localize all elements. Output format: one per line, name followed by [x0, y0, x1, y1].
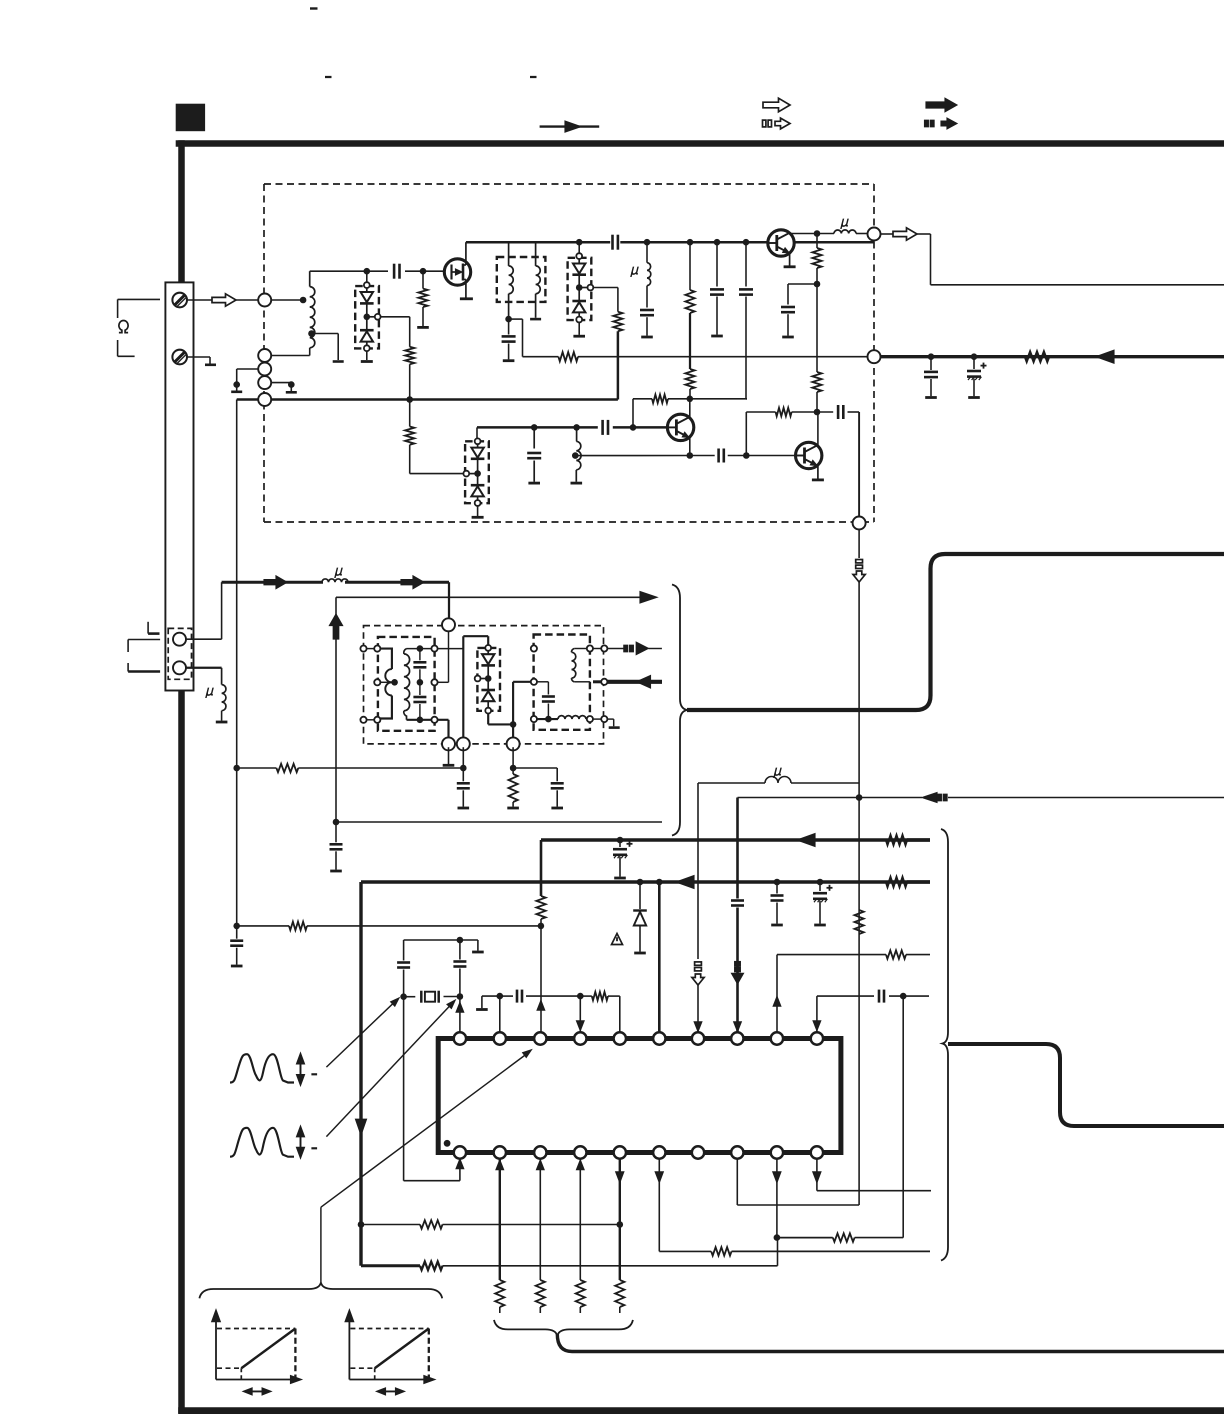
wire T3 bottom out: [438, 720, 449, 741]
node gate: [420, 268, 427, 275]
ground (C tank b): [458, 807, 470, 810]
ground (R gate): [417, 307, 429, 327]
node line2 p6: [656, 879, 663, 886]
waveform sine 1: [230, 1054, 294, 1082]
terminal IF tank top: [442, 618, 455, 631]
wire pin12 down: [499, 1158, 501, 1280]
wire Q1 drain: [465, 242, 467, 265]
ground (C bus d): [711, 335, 723, 338]
bus IF to IC: [687, 554, 1224, 710]
wire p4 riser: [579, 996, 581, 1033]
brace resistor group: [494, 1320, 633, 1336]
wire RF bus y400: [237, 331, 618, 399]
transistor Q2 oscillator: [667, 414, 693, 441]
arrow pin4 down: [577, 1021, 584, 1030]
capacitor C Q4: [781, 284, 817, 336]
wire p6 riser: [658, 882, 661, 1033]
resistor R pin14: [576, 1280, 585, 1307]
wire AGC thin inside: [618, 356, 868, 358]
T4 edge terminal out top: [587, 645, 593, 651]
wire R pin19 out: [855, 1237, 904, 1239]
ground (VC1): [361, 360, 373, 363]
wire R fb to node: [792, 411, 817, 413]
terminal mixer IF out: [853, 517, 866, 530]
wire R osc to collector node: [689, 313, 691, 369]
IC pin 14 (bottom): [574, 1146, 586, 1158]
node crystal rail: [457, 937, 464, 944]
wire p2 riser: [499, 996, 501, 1033]
wire terminal-B to ground: [187, 357, 210, 364]
ground (Q3 emitter): [812, 478, 824, 481]
label mu L2: [631, 267, 640, 277]
ground (stack left): [231, 385, 242, 392]
label mu L osc: [841, 219, 850, 229]
ground (C tank c): [551, 807, 563, 810]
node drain bus b: [644, 239, 651, 246]
waveform sine 1 range arrow: [297, 1054, 304, 1085]
node p4: [577, 993, 584, 1000]
node T3 cap mid: [417, 679, 424, 686]
ground (zener): [634, 952, 646, 955]
wire T4 winding top: [574, 648, 590, 650]
wire p9 riser: [776, 955, 778, 1033]
pointer waveform1 to crystal: [326, 994, 402, 1067]
T4 edge terminal bottom: [531, 716, 537, 722]
terminal IF tank bottom a: [442, 737, 455, 750]
zener D protect: [633, 882, 647, 952]
ground (C B+ b): [968, 396, 980, 399]
capacitor C B+ b electrolytic: [967, 357, 987, 397]
node RF bus / R tune: [406, 396, 413, 403]
wire pin13 down: [539, 1158, 541, 1280]
wire R line2 stub: [907, 880, 930, 883]
dashed open arrow p7: [692, 962, 704, 985]
wire p8 riser: [736, 798, 739, 1033]
arrow pin19 down: [773, 1172, 781, 1182]
transformer T4 dashed box: [534, 635, 590, 730]
brace bottom graphs: [199, 1283, 442, 1299]
resistor R y1224: [420, 1220, 443, 1228]
wire pin15 down: [619, 1158, 621, 1280]
bus IC signals out: [948, 1044, 1224, 1126]
node pin19 junction: [774, 1234, 781, 1241]
resistor R osc bias: [652, 395, 668, 403]
ground (stack right): [286, 385, 297, 393]
wire B+ tuner feed: [881, 355, 1224, 358]
IC pin1 index mark: [444, 1140, 451, 1147]
capacitor C line1 electrolytic: [613, 840, 633, 877]
tuner block dashed box: [264, 184, 874, 522]
wire VC4 bottom route: [488, 714, 513, 725]
capacitor C tank c: [551, 783, 564, 806]
capacitor C AGC: [230, 926, 243, 965]
terminal IF tank bottom b: [457, 737, 470, 750]
T4 edge terminal out bottom: [587, 716, 593, 722]
node left ground junction: [233, 381, 240, 388]
arrow pin14 up: [577, 1161, 584, 1170]
resistor R mixer IF: [855, 910, 864, 934]
wire VC2 top: [578, 242, 580, 253]
brace IF signals: [672, 585, 687, 836]
node T3 primary tap: [391, 679, 398, 686]
ground (C L2): [641, 336, 653, 339]
ground (uhf choke): [216, 721, 228, 724]
wire T2 to R mix: [509, 319, 559, 357]
balun terminal stack 4: [258, 393, 271, 406]
T3 edge terminal c: [360, 717, 366, 723]
resistor R line2: [886, 877, 907, 886]
wire T3 terminals c-d: [367, 719, 375, 721]
capacitor C feedback top: [739, 242, 753, 399]
wire p9 line: [777, 954, 930, 956]
resistor R tune2: [613, 312, 622, 332]
wire AGC to AFT: [237, 767, 277, 769]
uhf hook mark: [148, 622, 159, 634]
capacitor C T3 b: [413, 682, 426, 720]
wire stack-2 to left ground: [237, 369, 259, 385]
arrow into pin8: [734, 1022, 741, 1031]
arrow pin11 up: [456, 1160, 463, 1169]
resistor R pin12: [495, 1280, 504, 1307]
wire L1 bottom to stack: [271, 348, 310, 356]
resistor R pin16: [711, 1247, 731, 1255]
resistor R pin13: [536, 1280, 545, 1307]
wire R p3 to pin3: [540, 919, 542, 1033]
capacitor C tank: [527, 427, 541, 481]
ground (Q1 source): [460, 297, 473, 300]
wire y1224 line: [361, 1224, 620, 1226]
IC pin 8 (top): [731, 1032, 743, 1044]
ground (C AFT): [330, 870, 342, 873]
ground (L tank): [571, 482, 583, 485]
wire C p10 to node: [889, 995, 929, 997]
waveform sine 2: [230, 1128, 294, 1157]
node T3 bottom rail: [417, 717, 424, 724]
T4 edge terminal mid: [531, 679, 537, 685]
wire fb to IF terminal: [858, 412, 860, 517]
ground (Q4 emitter): [784, 265, 796, 268]
graph AFC curve 2: [345, 1310, 435, 1395]
resistor R mix inject: [558, 352, 578, 361]
node drain bus a: [576, 239, 583, 246]
ground (C line2 b): [814, 924, 826, 927]
IC pin 5 (top): [614, 1032, 626, 1044]
capacitor C L2: [640, 286, 654, 336]
ground (L1 tap): [333, 360, 344, 363]
wire arrow to tuner input terminal: [236, 299, 258, 301]
wire p7 riser: [697, 783, 699, 1033]
arrow pin1 up: [456, 1003, 463, 1012]
waveform sine 1 dash: [311, 1073, 317, 1075]
capacitor C tank b: [457, 768, 470, 807]
resistor R fb: [776, 408, 792, 416]
legend dashed open arrow: [763, 118, 791, 129]
T3 edge terminal b: [374, 646, 380, 652]
inductor L osc out: [817, 230, 868, 234]
IC pin 20 (bottom): [811, 1146, 823, 1158]
T3 edge terminal a: [360, 646, 366, 652]
page border left: [178, 140, 185, 1413]
stub R pin13: [539, 1307, 541, 1313]
IC pin 19 (bottom): [771, 1146, 783, 1158]
node line2 cap b: [817, 879, 824, 886]
wire bias to R agc: [816, 284, 818, 372]
resistor R tune upper: [405, 347, 414, 364]
node y1224 x361: [358, 1221, 365, 1228]
IC pin 18 (bottom): [731, 1146, 743, 1158]
label mu L uhf gnd: [206, 688, 215, 698]
inductor L1 (antenna coil): [310, 271, 315, 348]
wire line2: [361, 880, 930, 883]
wire R p5 to pin5: [608, 996, 620, 1033]
IC pin 2 (top): [494, 1032, 506, 1044]
resistor R p9: [886, 950, 906, 958]
wire drain bus y242: [466, 241, 874, 243]
open arrow osc out: [881, 228, 918, 240]
wire mixer IF down: [858, 530, 860, 1206]
wire T4 mid to cap: [537, 681, 548, 683]
wire R to Q2 collector: [689, 389, 691, 399]
wire VC4 node down: [512, 724, 514, 740]
node VC1 top: [364, 268, 371, 275]
wire R tank c lead: [512, 768, 514, 807]
node Q4 out: [814, 230, 821, 237]
dashed solid arrow p8: [732, 962, 744, 984]
ground (tank bottom a): [443, 764, 455, 767]
node C T4 bottom: [545, 716, 552, 723]
wire tank bottom b down: [462, 747, 464, 768]
wire choke to ground: [221, 711, 223, 721]
node drain bus d: [714, 239, 721, 246]
wire input to L1: [271, 299, 303, 301]
wire R tune to RF bus: [409, 364, 411, 399]
node L1 top tap: [300, 297, 307, 304]
wire R line1 stub: [907, 838, 930, 841]
wire emitter bus: [690, 455, 715, 457]
T2 primary winding: [509, 242, 514, 319]
capacitor C xtal a: [397, 940, 410, 997]
capacitor C gate: [367, 264, 445, 279]
node Q2 collector: [687, 396, 694, 403]
wire Q2 collector: [689, 399, 691, 418]
node tank c junction: [510, 765, 517, 772]
inductor L2 choke: [647, 242, 651, 285]
node AFT junction: [460, 765, 467, 772]
wire uhf feed thick: [222, 581, 323, 584]
graph AFC curve 1: [212, 1310, 302, 1395]
T3 primary path: [380, 649, 392, 719]
wire long AGC vertical x237: [236, 400, 238, 926]
IC pin 16 (bottom): [653, 1146, 665, 1158]
wire uhf feed thick 2: [345, 582, 449, 618]
wire AFT bus y822: [336, 821, 662, 823]
wire terminal-A to input arrow: [187, 299, 212, 301]
capacitor C line2 b electrolytic: [813, 882, 833, 924]
ground (VC3): [472, 516, 484, 519]
mosfet Q1 RF amp: [444, 259, 470, 285]
wire tank tap to emitter line: [577, 455, 690, 457]
arrow line2 left: [676, 876, 694, 889]
arrow B+ feed left: [1096, 350, 1114, 363]
resistor R gate: [418, 271, 427, 307]
wire p10 riser: [817, 996, 874, 1033]
wire C to Q3 base: [728, 455, 796, 457]
wire VC2 bottom to ground: [578, 322, 580, 335]
wire p2 node gnd: [482, 996, 500, 1008]
node L tank tap: [572, 452, 579, 459]
wire uhf1 riser: [186, 582, 222, 639]
varactor diode pair D5 D6: [463, 438, 488, 506]
wire T4 bottom rail: [537, 718, 558, 720]
wire uhf2 to choke: [186, 668, 222, 685]
IC body (IF processor): [438, 1039, 841, 1153]
wire Q2 emitter: [689, 438, 691, 456]
T4 winding: [571, 649, 575, 682]
terminal osc out: [868, 228, 881, 241]
wire xtal right to pin1: [459, 997, 461, 1034]
wire R agc to fb node: [816, 392, 818, 412]
ground (C line1): [614, 877, 626, 880]
crystal X1: [404, 991, 460, 1003]
antenna terminal screw VHF-A: [172, 293, 187, 308]
wire xtal left to pin11: [404, 997, 460, 1181]
node B+ feed a: [928, 353, 935, 360]
terminal IF tank bottom c: [507, 737, 520, 750]
balun terminal stack 2: [258, 363, 271, 376]
node mixer IF tap: [856, 794, 863, 801]
arrow uhf feed 2: [401, 576, 424, 589]
capacitor C T2: [502, 319, 516, 359]
ground (C Q4): [782, 336, 794, 339]
wire collector to C string: [690, 398, 747, 400]
safety mark triangle: [612, 934, 623, 945]
wire T3 mid to tank top terminal: [438, 631, 449, 682]
ground (C B+ a): [925, 396, 937, 399]
wire p10 ext down: [902, 996, 904, 1238]
resistor R pin19: [833, 1233, 855, 1241]
uhf terminal 1: [173, 633, 186, 646]
T3 edge terminal d: [374, 717, 380, 723]
ground (C T2): [503, 359, 515, 362]
capacitor C interstage: [613, 235, 618, 250]
ground (crystal rail): [472, 951, 484, 954]
stub R pin15: [619, 1307, 621, 1313]
wire IF top entry: [448, 617, 450, 619]
node osc base: [630, 424, 637, 431]
IF box terminal out2: [601, 679, 607, 685]
IC pin 11 (bottom): [454, 1146, 466, 1158]
resistor R line1: [886, 835, 907, 844]
node B+ feed b: [971, 353, 978, 360]
wire R pin16 out: [732, 1250, 931, 1252]
dashed arrow IF out1: [607, 642, 662, 654]
wire base bias riser: [633, 399, 652, 428]
resistor R osc supply: [685, 242, 694, 313]
resistor R tune osc: [405, 400, 414, 445]
page corner mark (black square): [176, 104, 205, 132]
node p2: [497, 993, 504, 1000]
wire VC2 mid to R tune2: [593, 288, 618, 312]
wire injection riser: [335, 638, 337, 822]
transformer T2 dashed box: [497, 257, 546, 302]
title dash mark 1: [310, 7, 318, 9]
node xtal left: [400, 993, 407, 1000]
arrow pin13 up: [537, 1161, 544, 1170]
IC pin 7 (top): [692, 1032, 704, 1044]
capacitor C p8: [731, 901, 744, 906]
resistor R Q4 load: [812, 234, 821, 269]
label mu L uhf: [335, 568, 344, 578]
capacitor C bus d: [710, 242, 724, 335]
wire L1 tap to ground: [312, 334, 339, 361]
varactor diode pair D7 D8: [475, 645, 500, 713]
wire tank to VC3: [476, 427, 478, 438]
node osc tank a: [531, 424, 538, 431]
balun terminal stack 3: [258, 376, 271, 389]
IC pin 17 (bottom): [692, 1146, 704, 1158]
node right ground junction: [288, 381, 295, 388]
dashed solid arrow y797: [922, 793, 947, 803]
wire ext line y797: [865, 797, 1224, 799]
arrow pin20 down: [813, 1172, 821, 1182]
wire tank bottom c down: [512, 747, 514, 768]
terminal tuner AGC: [868, 350, 881, 363]
node T2 primary bottom: [505, 316, 512, 323]
arrow up thick into injection: [329, 597, 342, 639]
arrow osc injection: [640, 592, 657, 604]
resistor R osc collector: [685, 369, 694, 389]
node Q2 emitter: [687, 452, 694, 459]
open arrow RF input: [212, 294, 236, 306]
T4 edge terminal top: [531, 645, 537, 651]
wire T3 tap to terminal: [380, 681, 394, 683]
label 75-ohm: [119, 321, 128, 333]
T3 edge terminal top right: [431, 646, 437, 652]
T2 secondary winding: [536, 242, 541, 318]
stub R pin14: [579, 1307, 581, 1313]
varactor diode pair D3 D4: [568, 253, 594, 322]
ground (T2 secondary): [530, 318, 541, 321]
inductor L uhf: [322, 579, 348, 582]
wire pin14 down: [579, 1158, 581, 1280]
transistor Q4 osc buffer: [768, 230, 794, 257]
capacitor C T4: [542, 682, 555, 719]
node VC4 route: [510, 721, 517, 728]
resistor R p3: [536, 896, 545, 919]
bus AFC out bottom: [557, 1334, 1224, 1352]
wire VC4 to T4 mid: [513, 682, 531, 725]
node T3 cap top: [417, 645, 424, 652]
wire Q4 collector out: [790, 232, 817, 235]
pointer waveform2 to pin1 node: [326, 996, 459, 1136]
node AGC end: [233, 923, 240, 930]
wire pin19 down: [776, 1158, 778, 1237]
wire B+ to p3: [540, 840, 543, 896]
capacitor C p10: [879, 990, 884, 1003]
T3 edge terminal bottom right: [431, 717, 437, 723]
ground (VC2): [573, 335, 585, 338]
IC pin 12 (bottom): [494, 1146, 506, 1158]
arrow pin9 up: [774, 997, 781, 1006]
wire osc injection line: [336, 596, 640, 598]
T3 edge terminal mid: [374, 679, 380, 685]
node B+ line1 cap: [617, 837, 624, 844]
uhf bracket: [128, 640, 160, 672]
wire stack-3 to right ground: [271, 383, 291, 385]
arrow pin10 down: [813, 1021, 820, 1030]
inductor L tank: [576, 427, 581, 481]
title dash mark 3: [530, 76, 537, 78]
